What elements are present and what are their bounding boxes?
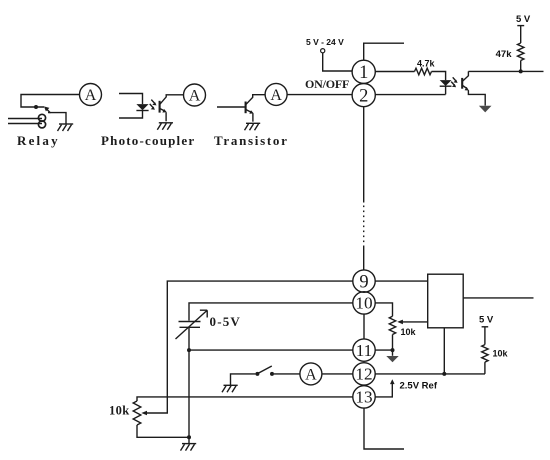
pin 13 bbox=[353, 386, 375, 408]
meter A (photocoupler) bbox=[184, 84, 206, 106]
phototransistor collector bbox=[160, 95, 184, 105]
0-5V source plates bbox=[179, 322, 201, 328]
wire meter to pin 12 bbox=[322, 373, 353, 375]
wire meter to pin 2 bbox=[287, 94, 352, 96]
pin 11 bbox=[353, 339, 375, 361]
svg-text:4.7k: 4.7k bbox=[417, 59, 436, 69]
switch contact left bbox=[255, 372, 259, 376]
svg-text:Photo-coupler: Photo-coupler bbox=[101, 133, 195, 148]
resistor 4.7k bbox=[415, 68, 432, 75]
stub wire above pin 1 bbox=[364, 43, 404, 60]
resistor 10k (pin10) bbox=[389, 316, 395, 334]
photocoupler LED D1 bbox=[136, 104, 148, 110]
pin 1 bbox=[352, 60, 375, 83]
optocoupler LED bbox=[440, 80, 452, 94]
relay moving contact arrow bbox=[44, 106, 51, 113]
wire terminal to pin 1 bbox=[323, 53, 352, 71]
wire pin13 left to pot bbox=[137, 397, 353, 401]
collector rail to right edge bbox=[468, 70, 543, 72]
wire pin11 left bbox=[189, 349, 353, 351]
svg-text:A: A bbox=[189, 88, 201, 105]
wire pin2 to LED bbox=[375, 94, 445, 96]
meter A (transistor) bbox=[265, 83, 287, 105]
svg-text:Relay: Relay bbox=[17, 133, 60, 148]
bus solid to pin 9 bbox=[363, 247, 365, 270]
svg-text:10k: 10k bbox=[493, 349, 509, 359]
10k to pin12 wire bbox=[484, 362, 486, 374]
svg-text:ON/OFF: ON/OFF bbox=[305, 77, 349, 91]
svg-text:0-5V: 0-5V bbox=[210, 314, 242, 329]
svg-text:2.5V Ref: 2.5V Ref bbox=[400, 380, 438, 391]
optocoupler collector bbox=[462, 71, 468, 81]
wire pin10 to 10k bbox=[375, 303, 392, 316]
relay coil leads bbox=[8, 119, 42, 124]
wiper arrowhead bbox=[141, 411, 147, 416]
signal ground (pin11) bbox=[386, 350, 398, 362]
signal ground (optocoupler emitter) bbox=[479, 106, 492, 113]
pin 2 bbox=[352, 84, 375, 107]
5V rail bar bbox=[517, 25, 524, 27]
svg-text:5 V - 24 V: 5 V - 24 V bbox=[306, 37, 344, 47]
wire 47k to rail bbox=[520, 61, 522, 72]
5V bar bbox=[482, 326, 489, 328]
pin 10 bbox=[353, 292, 375, 314]
junction pin11/10k bbox=[391, 348, 395, 352]
ground (relay) bbox=[58, 124, 74, 131]
svg-text:A: A bbox=[85, 87, 97, 104]
svg-text:47k: 47k bbox=[496, 49, 513, 60]
terminal 5V-24V bbox=[321, 49, 325, 53]
transistor collector bbox=[246, 95, 265, 105]
relay coil bbox=[38, 114, 45, 128]
wire switch to meter bbox=[274, 373, 300, 375]
svg-text:5 V: 5 V bbox=[479, 315, 494, 326]
wire 5V to 10k bbox=[484, 327, 486, 345]
svg-text:2: 2 bbox=[359, 86, 368, 106]
svg-text:11: 11 bbox=[356, 341, 373, 360]
resistor 47k bbox=[518, 43, 524, 61]
svg-text:10k: 10k bbox=[401, 327, 417, 337]
svg-text:12: 12 bbox=[355, 365, 372, 384]
svg-text:10k: 10k bbox=[109, 404, 130, 418]
wire pin13 to ref arrow bbox=[375, 383, 392, 397]
10k lower lead bbox=[392, 335, 394, 351]
resistor 10k (right) bbox=[482, 345, 488, 362]
transistor emitter with arrow bbox=[246, 109, 254, 121]
wire pin12 right bbox=[375, 373, 485, 375]
wire source to bottom rail bbox=[188, 350, 190, 437]
meter A (switch) bbox=[300, 363, 322, 385]
wire 5V to resistor bbox=[520, 26, 522, 43]
transistor base bar bbox=[245, 102, 247, 114]
phototransistor emitter with arrow bbox=[160, 108, 167, 121]
svg-text:9: 9 bbox=[359, 272, 368, 292]
light arrows bbox=[150, 100, 157, 110]
junction 47k rail bbox=[519, 69, 523, 73]
2.5V ref arrowhead bbox=[390, 379, 395, 384]
ground (transistor) bbox=[245, 123, 261, 130]
relay contact to ground wire bbox=[48, 113, 66, 124]
switch blade bbox=[258, 366, 272, 373]
wiper arrow from box bbox=[397, 320, 428, 325]
box right wire bbox=[463, 297, 533, 299]
pin 12 bbox=[353, 363, 375, 385]
wire below pin 13 bbox=[364, 408, 404, 449]
svg-text:13: 13 bbox=[355, 388, 372, 407]
IC box bbox=[428, 274, 464, 328]
switch contact right bbox=[270, 372, 274, 376]
wire pin1 to resistor bbox=[375, 71, 414, 73]
optocoupler emitter with arrow bbox=[462, 85, 485, 105]
svg-text:10: 10 bbox=[355, 294, 372, 313]
wire pin9 to pot wiper bbox=[146, 281, 353, 413]
junction box/pin12 bbox=[442, 372, 446, 376]
pot bottom lead bbox=[137, 425, 189, 437]
phototransistor bar bbox=[159, 101, 161, 113]
wire pin10 to source bbox=[189, 303, 353, 321]
bus pin2 down solid bbox=[363, 107, 365, 203]
junction bottom rail bbox=[187, 435, 191, 439]
pin 9 bbox=[353, 270, 375, 292]
switch ground lead bbox=[231, 374, 256, 385]
svg-text:1: 1 bbox=[359, 63, 368, 83]
optocoupler light arrows bbox=[451, 77, 457, 87]
bus dotted section bbox=[363, 206, 365, 248]
svg-text:5 V: 5 V bbox=[516, 14, 531, 25]
wire resistor to LED bbox=[432, 72, 446, 81]
0-5V variable arrow bbox=[176, 310, 208, 339]
relay contact wire from meter bbox=[21, 95, 80, 108]
wire pin11 right bbox=[375, 349, 392, 351]
svg-text:A: A bbox=[270, 87, 282, 104]
source lower lead bbox=[188, 328, 190, 350]
wire pin10 to pin11 bbox=[363, 314, 365, 339]
junction source / pin11 wire bbox=[187, 348, 191, 352]
meter A (relay) bbox=[80, 84, 102, 106]
ground (bottom left) bbox=[181, 437, 197, 450]
box bottom stub bbox=[443, 328, 445, 374]
svg-text:A: A bbox=[305, 366, 317, 383]
photocoupler input leads bbox=[119, 94, 143, 119]
wire pin9 to box bbox=[375, 280, 428, 282]
transistor base wire bbox=[217, 106, 245, 108]
node on relay wire bbox=[34, 105, 38, 109]
ground (photocoupler) bbox=[157, 123, 173, 130]
optocoupler phototransistor bar bbox=[461, 78, 463, 89]
potentiometer 10k bbox=[133, 401, 141, 425]
ground (switch) bbox=[222, 385, 238, 392]
svg-text:Transistor: Transistor bbox=[214, 133, 289, 148]
